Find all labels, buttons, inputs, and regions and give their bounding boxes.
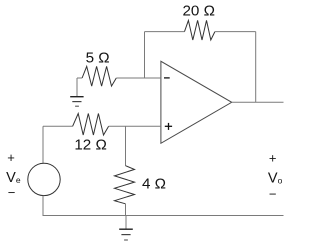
svg-text:−: − — [8, 185, 16, 200]
svg-text:5 Ω: 5 Ω — [86, 49, 110, 66]
svg-text:e: e — [16, 175, 21, 185]
svg-text:o: o — [278, 176, 283, 186]
svg-text:4 Ω: 4 Ω — [142, 176, 166, 193]
svg-text:+: + — [7, 150, 15, 165]
svg-text:V: V — [6, 170, 16, 186]
svg-text:+: + — [269, 151, 277, 166]
svg-text:20 Ω: 20 Ω — [182, 2, 214, 19]
svg-text:12 Ω: 12 Ω — [74, 137, 106, 154]
svg-text:−: − — [269, 187, 277, 202]
svg-text:V: V — [268, 171, 278, 187]
